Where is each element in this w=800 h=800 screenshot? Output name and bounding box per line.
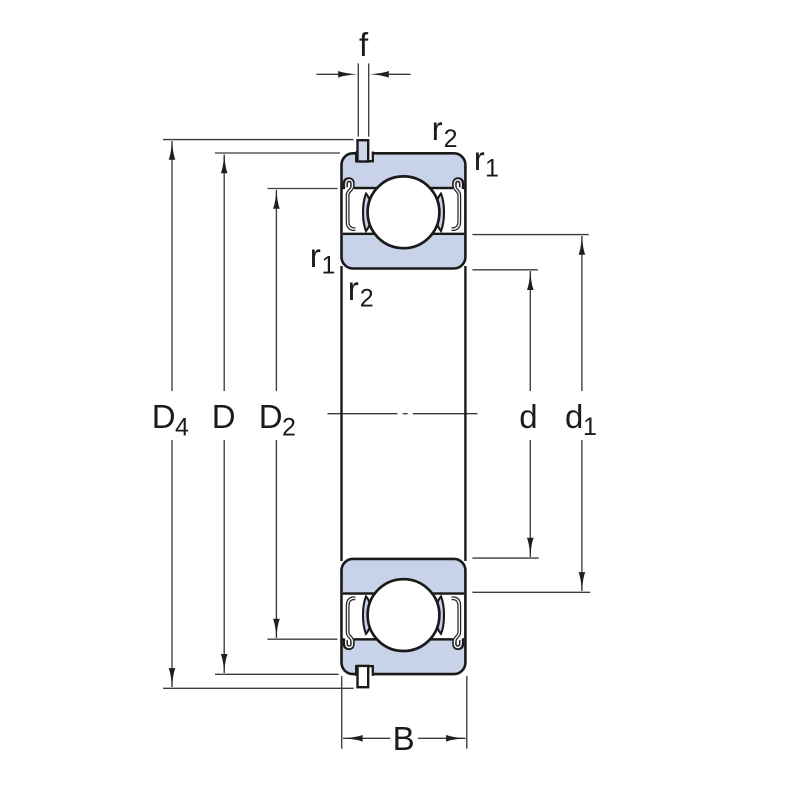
svg-text:1: 1 (322, 251, 336, 279)
svg-text:D: D (212, 398, 236, 435)
svg-text:d: d (519, 398, 537, 435)
svg-text:r: r (348, 270, 359, 307)
svg-text:2: 2 (282, 413, 296, 441)
svg-text:r: r (474, 140, 485, 177)
svg-text:d: d (565, 398, 583, 435)
svg-text:f: f (359, 26, 369, 63)
svg-text:r: r (310, 237, 321, 274)
svg-text:1: 1 (583, 413, 597, 441)
svg-text:2: 2 (444, 125, 458, 153)
svg-text:r: r (432, 110, 443, 147)
svg-text:B: B (393, 720, 415, 757)
svg-text:D: D (152, 398, 176, 435)
svg-text:D: D (259, 398, 283, 435)
svg-text:4: 4 (175, 413, 189, 441)
svg-text:2: 2 (360, 284, 374, 312)
svg-text:1: 1 (485, 155, 499, 183)
